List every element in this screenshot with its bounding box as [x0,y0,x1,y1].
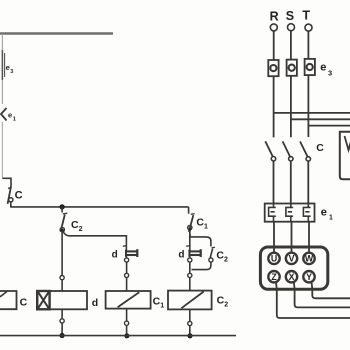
contact C phase R [265,141,275,161]
svg-text:e: e [8,111,12,120]
coil d (latching relay with X box) [37,291,87,309]
wire T down [307,31,309,59]
node junction dot [59,204,64,209]
terminal circle [60,276,64,280]
label e3 [320,62,332,78]
motor terminal W [303,253,314,264]
svg-text:C: C [316,142,324,154]
wire S contact to overload [290,161,292,204]
wire coil C2 to bus [189,309,191,321]
svg-text:3: 3 [10,69,13,75]
wire [126,262,128,273]
svg-text:1: 1 [329,215,333,222]
label C [15,189,23,201]
contact C2 holding (right parallel branch) [192,247,216,269]
contact d (left, above coil C1) [123,246,138,258]
node bus dot [60,333,65,338]
contact e1 (NC thermal contact, clipped) [1,108,7,121]
svg-text:S: S [286,9,294,23]
label T [302,8,310,22]
wire into coil C2 [189,278,191,291]
wire R fuse to contact [273,76,275,137]
svg-text:T: T [302,8,310,22]
label e3 [6,63,14,75]
thermal element S [286,204,293,222]
wire jog from rail to contact C [2,178,11,186]
voltmeter box (clipped at right edge) [340,132,350,179]
svg-text:U: U [271,254,277,264]
svg-text:3: 3 [328,69,332,78]
svg-text:d: d [178,250,184,261]
wire left supply rail [1,34,3,104]
terminal circle [60,319,64,323]
terminal S [288,24,295,31]
svg-text:2: 2 [224,301,228,308]
wire C1 contact down [189,230,191,251]
svg-text:2: 2 [224,257,228,264]
wire tap T to voltmeter box [308,125,350,127]
wire R contact to overload [273,161,275,204]
svg-text:C: C [15,189,23,201]
contact C (contactor NO contact) [8,187,13,207]
wire bottom return bus [0,335,236,337]
contact C1 (above parallel branch) [188,207,195,232]
terminal circle [188,273,192,277]
wire into coil d [61,280,63,291]
fuse e3 (control circuit, clipped at left edge) [2,50,4,80]
fuse e3 phase R [268,60,278,76]
label C2 [71,219,83,233]
coil C1 (time-delay slash) [106,291,151,309]
label C2 [216,250,228,264]
wire C2 bottom to branch C1 [63,232,126,251]
svg-text:W: W [305,254,314,264]
svg-text:d: d [112,250,118,261]
wire tap S to voltmeter box [291,118,350,120]
coil C (leftmost, clipped) [0,291,17,309]
motor terminal U [268,253,279,264]
terminal circle [188,321,192,325]
wire [61,323,63,336]
contact C2 (NC contact under junction) [60,207,67,232]
label d [112,250,118,261]
wire V lead [291,222,293,253]
terminal T [305,24,312,31]
svg-text:d: d [92,297,98,309]
thermal element R [269,204,276,222]
terminal circle [188,258,192,262]
coil C2 (time-delay slash) [168,291,212,310]
wire Y out to right [312,282,350,299]
contact C phase S [283,141,293,161]
wire X out to right [294,282,350,307]
motor terminal box [260,247,327,289]
label C1 [153,295,165,309]
wire [189,326,191,336]
motor terminal Y [303,271,314,282]
wire coil C1 to bus [126,309,128,322]
wire T fuse to contact [307,75,309,137]
label e1 [321,207,333,222]
wire W lead [308,222,310,253]
svg-text:2: 2 [79,226,83,233]
node bus dot [187,333,192,338]
svg-text:1: 1 [204,224,208,231]
wire T contact to overload [307,161,309,203]
motor terminal V [286,253,297,264]
label C1 [196,217,208,231]
svg-text:e: e [321,207,327,219]
wire S down [290,31,292,60]
contact d (right, above coil C2) [186,246,201,258]
svg-text:e: e [320,62,326,74]
svg-text:C: C [20,296,28,308]
wire R down [273,31,275,60]
wire U lead [273,222,275,253]
svg-text:X: X [289,272,295,282]
svg-text:Y: Y [306,272,312,282]
wire parallel branch top [190,233,211,246]
label d [178,250,184,261]
svg-text:R: R [270,9,279,23]
terminal circle [125,273,129,277]
contact C phase T [300,142,310,162]
node bus dot [124,333,129,338]
terminal R [270,24,277,31]
wire Z out to right [276,282,350,318]
svg-text:1: 1 [160,302,164,309]
thermal element T [303,204,310,222]
motor terminal Z [268,271,279,282]
terminal circle [125,321,129,325]
wire coil d to bus [61,309,63,319]
label S [286,9,294,23]
overload relay e1 box [265,204,315,222]
svg-text:e: e [6,63,10,72]
label e1 [8,111,16,123]
terminal circle [125,258,129,262]
label C2 [217,294,229,308]
label d [92,297,98,309]
label C [316,142,324,154]
wire [126,325,128,335]
svg-text:Z: Z [271,272,277,282]
svg-text:V: V [289,254,295,264]
motor terminal X [286,271,297,282]
wire top rail (gray, cropped figure top border) [0,32,113,34]
svg-text:1: 1 [13,117,16,123]
fuse e3 phase S [287,60,297,76]
wire [189,262,191,273]
label C [20,296,28,308]
wire into coil C1 [126,278,128,292]
wire horizontal control bus [10,206,188,208]
label R [270,9,279,23]
fuse e3 phase T [305,59,315,75]
wire S fuse to contact [290,76,292,137]
wire tap R to voltmeter box [274,112,350,114]
wire C2 contact down to coil d [61,231,63,276]
